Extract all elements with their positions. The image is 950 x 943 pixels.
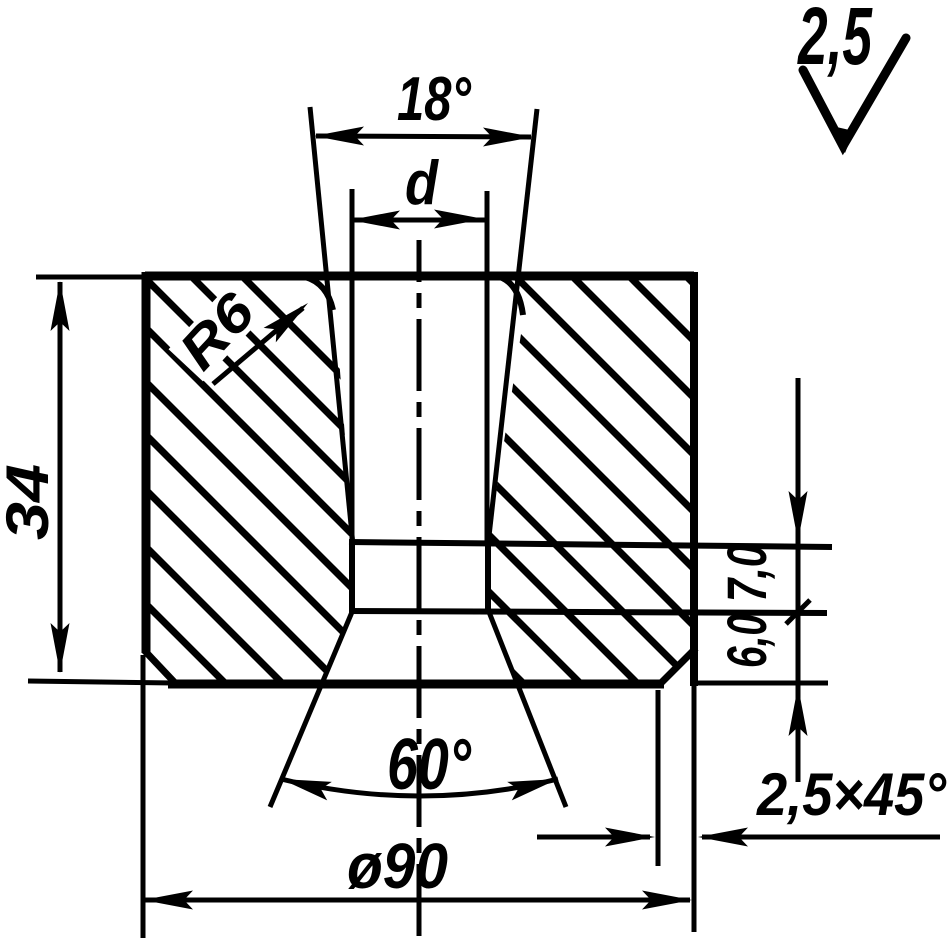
center line bbox=[417, 240, 422, 936]
dimension 34: line bbox=[58, 282, 63, 672]
band edge line right (d bore) bbox=[485, 191, 490, 543]
leader R6: line bbox=[213, 308, 303, 384]
right dimensions: down arrow to band top bbox=[789, 491, 808, 541]
leader R6: arrow bbox=[264, 296, 315, 343]
chamfer bottom-right 2.5x45 bbox=[658, 648, 696, 686]
dimension 34: arrow up bbox=[51, 281, 70, 331]
dimension 60deg: arc bbox=[281, 779, 558, 796]
dimension dia90: left arrow bbox=[143, 891, 193, 910]
svg-text:ø90: ø90 bbox=[347, 830, 448, 902]
right dimensions: vertical line bbox=[796, 378, 801, 782]
band bottom line bbox=[349, 611, 827, 613]
bottom face extension line left bbox=[28, 681, 174, 683]
fillet R6 right hole corner bbox=[500, 277, 523, 315]
taper wall right (18 deg) bbox=[488, 109, 537, 545]
dimension d: left arrow bbox=[350, 211, 400, 230]
dimension d: right arrow bbox=[434, 210, 484, 229]
band wall left bbox=[349, 541, 355, 614]
top face extension line left bbox=[36, 275, 145, 280]
dimension 18deg: right arrow bbox=[483, 128, 533, 147]
dimension 18deg: left arrow bbox=[314, 127, 364, 146]
taper wall left (18 deg) bbox=[310, 107, 353, 545]
dimension dia90: line bbox=[145, 898, 690, 903]
band wall right bbox=[485, 541, 491, 614]
dimension chamfer: left line + arrow bbox=[537, 835, 650, 840]
dimension dia90: left extension line bbox=[141, 655, 146, 938]
right dimensions: up arrow to bottom face bbox=[789, 686, 808, 736]
roughness symbol 2,5: vertex blob bbox=[832, 126, 854, 153]
cone wall left (60 deg relief) bbox=[270, 612, 352, 807]
dimension dia90: right arrow bbox=[642, 891, 692, 910]
svg-text:2,5: 2,5 bbox=[797, 0, 873, 82]
dimension 60deg: left arrow bbox=[279, 770, 332, 801]
leader R6: text halo bbox=[169, 285, 263, 381]
dimension d: line bbox=[352, 218, 487, 223]
svg-text:2,5×45°: 2,5×45° bbox=[756, 761, 947, 828]
dimension dia90: right extension line bbox=[692, 652, 697, 932]
roughness symbol 2,5: check mark bbox=[803, 38, 906, 146]
dimension 60deg: right arrow bbox=[507, 770, 560, 801]
svg-text:6,0: 6,0 bbox=[715, 614, 778, 668]
svg-text:18°: 18° bbox=[397, 65, 472, 134]
chamfer bottom-left bbox=[144, 650, 177, 685]
part outline: left face bbox=[142, 272, 151, 653]
svg-text:d: d bbox=[405, 149, 439, 218]
hatching left block bbox=[100, 134, 480, 943]
part outline: bottom face bbox=[168, 680, 664, 689]
hatching right block bbox=[420, 10, 920, 943]
fillet R6 left hole corner bbox=[305, 277, 333, 310]
dimension chamfer 2,5x45: extension line bbox=[656, 690, 661, 866]
svg-text:7,0: 7,0 bbox=[715, 544, 778, 602]
part outline: right face bbox=[690, 272, 698, 686]
part outline: top face bbox=[145, 272, 694, 281]
cone wall right (60 deg relief) bbox=[489, 612, 566, 807]
band edge line left (d bore) bbox=[350, 189, 355, 543]
dimension chamfer: right line + arrow bbox=[702, 835, 940, 840]
band top line bbox=[349, 542, 832, 547]
right dimensions: slash tick at band bottom bbox=[786, 600, 810, 624]
svg-text:34: 34 bbox=[0, 464, 61, 540]
bottom face extension line right bbox=[694, 681, 828, 686]
dimension 34: arrow down bbox=[51, 623, 70, 673]
dimension 18deg: line bbox=[316, 136, 531, 137]
svg-text:60°: 60° bbox=[387, 725, 472, 805]
